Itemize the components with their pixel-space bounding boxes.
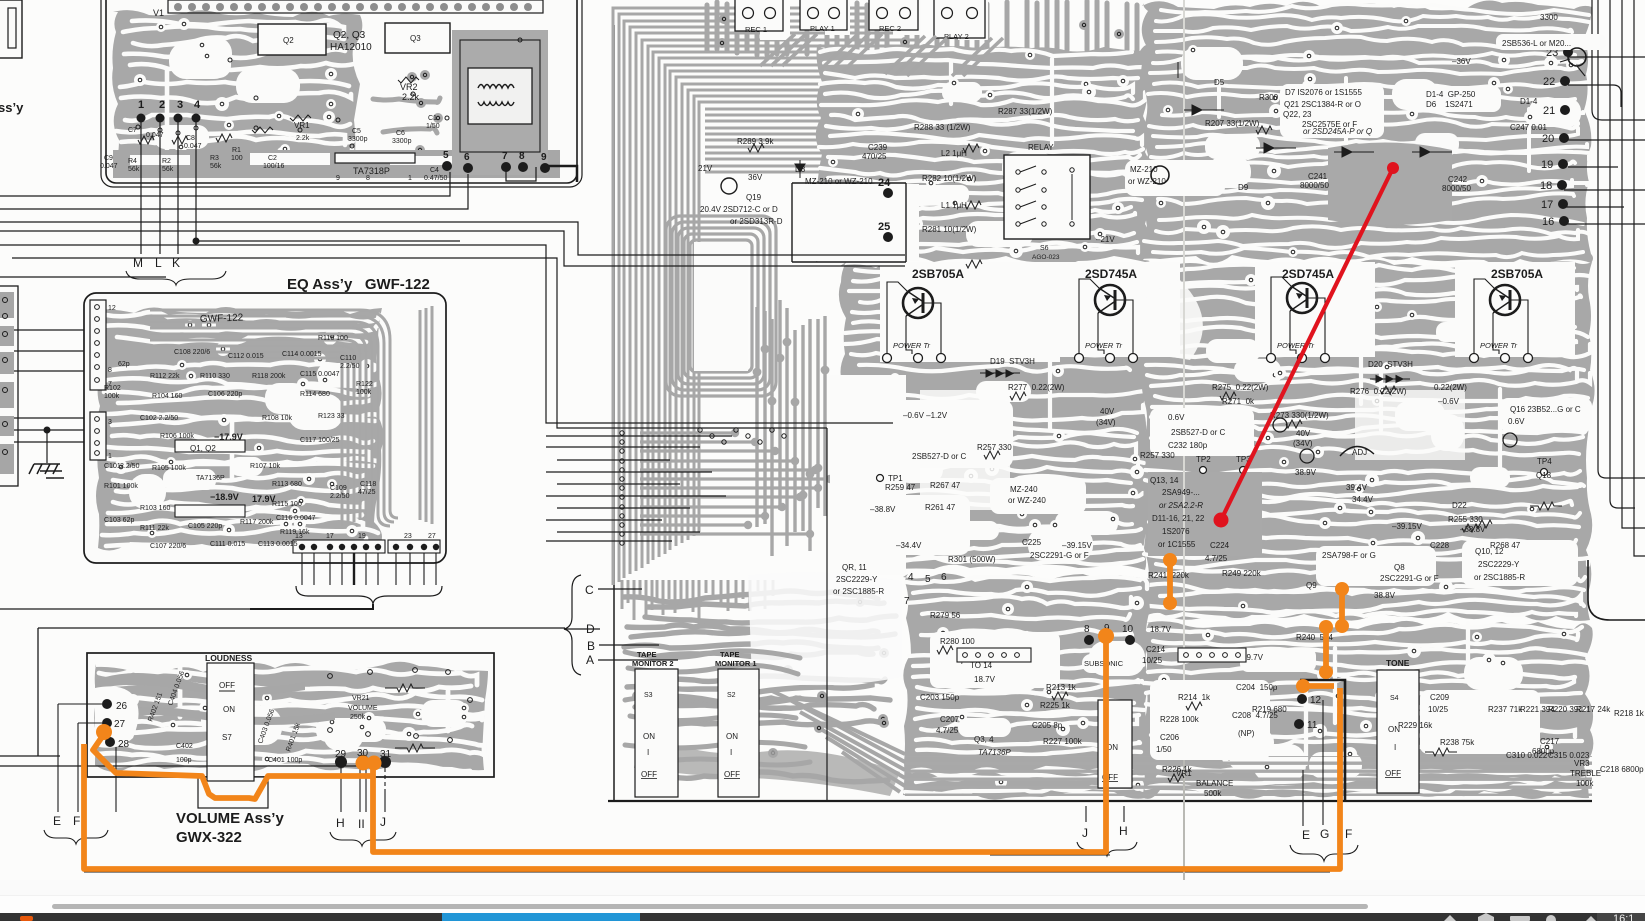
- main board bottom border: [608, 800, 1592, 802]
- svg-text:2SB527-D or C: 2SB527-D or C: [912, 452, 966, 461]
- svg-text:9: 9: [541, 152, 547, 163]
- svg-text:–36V: –36V: [1452, 57, 1471, 66]
- svg-text:29: 29: [335, 749, 347, 760]
- diode row STV3H left: [980, 370, 1020, 377]
- svg-text:4.7/25: 4.7/25: [936, 726, 959, 735]
- svg-text:C117 100/25: C117 100/25: [300, 437, 340, 444]
- svg-text:MONITOR 1: MONITOR 1: [715, 659, 757, 668]
- svg-text:POWER Tr: POWER Tr: [1085, 341, 1122, 350]
- svg-text:R213 1k: R213 1k: [1046, 683, 1077, 692]
- red service pointer line: [1214, 162, 1400, 528]
- svg-text:R4: R4: [128, 158, 137, 165]
- interconnect wires: [0, 166, 905, 800]
- svg-text:R279 56: R279 56: [930, 611, 961, 620]
- svg-text:or 1C1555: or 1C1555: [1158, 540, 1196, 549]
- svg-text:POWER Tr: POWER Tr: [893, 341, 930, 350]
- svg-text:12: 12: [1310, 695, 1322, 706]
- node D long wire: [38, 627, 565, 629]
- pins 26 27 28: [102, 699, 112, 709]
- svg-text:S2: S2: [727, 692, 736, 699]
- pad numbers: [904, 572, 1322, 731]
- svg-text:56k: 56k: [162, 166, 174, 173]
- svg-text:Q9: Q9: [1306, 581, 1317, 590]
- svg-text:D8: D8: [795, 165, 806, 174]
- svg-text:C7: C7: [128, 127, 137, 134]
- svg-text:VR21: VR21: [352, 695, 370, 702]
- svg-text:R106 100k: R106 100k: [160, 433, 194, 440]
- svg-text:Q1, Q2: Q1, Q2: [190, 444, 216, 453]
- svg-text:R101 100k: R101 100k: [104, 483, 138, 490]
- svg-text:C103 62p: C103 62p: [104, 517, 134, 524]
- svg-text:0.047: 0.047: [184, 143, 202, 150]
- svg-text:R113 680: R113 680: [272, 481, 302, 488]
- svg-text:–39.15V: –39.15V: [1392, 522, 1422, 531]
- svg-text:2SD745A: 2SD745A: [1085, 267, 1137, 281]
- svg-text:E: E: [1302, 828, 1310, 842]
- svg-text:R107 10k: R107 10k: [250, 463, 280, 470]
- wire from junction right: [196, 240, 460, 242]
- svg-text:25: 25: [878, 221, 890, 233]
- svg-text:TA7136P: TA7136P: [978, 748, 1011, 757]
- svg-text:D20 STV3H: D20 STV3H: [1368, 360, 1413, 369]
- svg-text:1S2076: 1S2076: [1162, 527, 1190, 536]
- taskbar active app: [442, 913, 640, 921]
- svg-text:TREBLE: TREBLE: [1570, 769, 1601, 778]
- svg-text:19: 19: [1541, 159, 1553, 171]
- svg-text:C113 0.0015: C113 0.0015: [258, 541, 298, 548]
- svg-text:21: 21: [1543, 105, 1555, 117]
- jack PLAY 1: [800, 0, 847, 33]
- svg-text:3300p: 3300p: [392, 138, 412, 145]
- svg-text:C207: C207: [940, 715, 960, 724]
- taskbar: [0, 913, 1645, 921]
- copper bottom band: [113, 150, 560, 178]
- svg-text:C110: C110: [340, 355, 356, 362]
- svg-text:R277 0.22(2W): R277 0.22(2W): [1008, 383, 1065, 392]
- svg-text:OFF: OFF: [1385, 769, 1401, 778]
- svg-text:26: 26: [116, 701, 128, 712]
- svg-text:1/50: 1/50: [426, 123, 440, 130]
- svg-text:C401 100p: C401 100p: [268, 757, 302, 764]
- horizontal scrollbar: [0, 896, 1645, 913]
- ADJ arc: [1340, 446, 1374, 456]
- copper mass top right: [1141, 1, 1593, 265]
- svg-text:S3: S3: [644, 692, 653, 699]
- EQ component labels: [104, 335, 376, 550]
- resistor zigzags scattered: [748, 126, 1562, 782]
- svg-text:C203 150p: C203 150p: [920, 693, 960, 702]
- svg-text:G: G: [1320, 827, 1329, 841]
- svg-text:H: H: [336, 816, 345, 830]
- copper mass top middle: [707, 0, 1137, 55]
- svg-text:0.22(2W): 0.22(2W): [1434, 383, 1467, 392]
- svg-text:or WZ-240: or WZ-240: [1008, 496, 1046, 505]
- svg-text:7: 7: [904, 596, 910, 607]
- svg-text:R273 330(1/2W): R273 330(1/2W): [1270, 411, 1329, 420]
- horizontal trace band bottom: [905, 756, 1592, 796]
- solid pour near C241: [1328, 142, 1452, 225]
- svg-text:R115 100: R115 100: [272, 501, 302, 508]
- svg-text:Q13, 14: Q13, 14: [1150, 476, 1179, 485]
- svg-text:8000/50: 8000/50: [1442, 184, 1471, 193]
- svg-text:6800p: 6800p: [1532, 747, 1555, 756]
- IC Q3: [385, 23, 450, 53]
- svg-text:2SC2229-Y: 2SC2229-Y: [836, 575, 878, 584]
- svg-text:R276 0.22(2W): R276 0.22(2W): [1350, 387, 1407, 396]
- svg-text:2SC2229-Y: 2SC2229-Y: [1478, 560, 1520, 569]
- svg-text:TP4: TP4: [1537, 457, 1552, 466]
- svg-text:C102 2.2/50: C102 2.2/50: [140, 415, 178, 422]
- svg-text:R111 22k: R111 22k: [140, 525, 169, 532]
- svg-text:34.4V: 34.4V: [1352, 495, 1374, 504]
- svg-text:3: 3: [177, 99, 183, 111]
- IC Q1,Q2 strips: [175, 440, 245, 452]
- wires into EQ board: [0, 277, 166, 442]
- svg-text:Q8: Q8: [1394, 563, 1405, 572]
- svg-text:BALANCE: BALANCE: [1196, 779, 1233, 788]
- svg-text:C217: C217: [1540, 737, 1560, 746]
- svg-text:VOLUME: VOLUME: [348, 705, 378, 712]
- content bottom edge: [0, 880, 1645, 921]
- svg-text:TAPE: TAPE: [720, 650, 739, 659]
- small component labels: [100, 115, 447, 182]
- svg-text:3300: 3300: [1540, 13, 1558, 22]
- relay S6: [1004, 143, 1090, 261]
- svg-text:R118 200k: R118 200k: [252, 373, 286, 380]
- svg-text:0.047: 0.047: [100, 163, 118, 170]
- svg-text:S7: S7: [222, 733, 232, 742]
- svg-text:D5: D5: [1214, 78, 1225, 87]
- svg-text:TP1: TP1: [888, 474, 903, 483]
- IC Q1 strip: [335, 153, 415, 163]
- svg-text:C1: C1: [428, 115, 437, 122]
- svg-text:2SA949-...: 2SA949-...: [1162, 488, 1200, 497]
- EQ right trace bundle (nested arcs): [150, 306, 432, 526]
- svg-text:or 2SC1885-R: or 2SC1885-R: [833, 587, 884, 596]
- svg-text:OFF: OFF: [724, 770, 740, 779]
- brace gathering EQ wires: [296, 586, 442, 604]
- svg-text:C118: C118: [360, 481, 376, 488]
- switch S2: [715, 650, 759, 797]
- svg-text:R114 680: R114 680: [300, 391, 330, 398]
- svg-text:R110 330: R110 330: [200, 373, 230, 380]
- svg-text:R275 0.22(2W): R275 0.22(2W): [1212, 383, 1269, 392]
- copper pour mid cluster: [373, 70, 443, 155]
- svg-text:C228: C228: [1430, 541, 1450, 550]
- transistor Q15: [1273, 418, 1287, 432]
- svg-text:19: 19: [358, 533, 366, 540]
- svg-text:Q3: Q3: [410, 34, 421, 43]
- junction dot wire K: [193, 238, 200, 245]
- svg-text:C112 0.015: C112 0.015: [228, 353, 264, 360]
- svg-text:10/25: 10/25: [1142, 656, 1163, 665]
- svg-text:8: 8: [108, 367, 112, 374]
- trace frames around island: [666, 216, 776, 396]
- svg-text:Q18: Q18: [1536, 471, 1552, 480]
- svg-text:D6 1S2471: D6 1S2471: [1426, 100, 1473, 109]
- svg-text:100: 100: [231, 155, 243, 162]
- svg-text:1: 1: [408, 175, 412, 182]
- svg-text:R268 47: R268 47: [1490, 541, 1521, 550]
- switch TONE S4: [1377, 658, 1419, 793]
- svg-text:I: I: [730, 748, 732, 757]
- svg-text:–21V: –21V: [1096, 235, 1115, 244]
- svg-text:R219 680: R219 680: [1252, 705, 1287, 714]
- scan crease: [1183, 0, 1185, 880]
- IC Q2: [258, 24, 326, 55]
- svg-text:56k: 56k: [128, 166, 140, 173]
- svg-text:6: 6: [941, 572, 947, 583]
- svg-text:18: 18: [1540, 180, 1552, 192]
- svg-text:2SD745A: 2SD745A: [1282, 267, 1334, 281]
- svg-text:28: 28: [118, 739, 130, 750]
- svg-text:27: 27: [114, 719, 126, 730]
- loudness tab below board: [198, 777, 268, 808]
- wires pins 1-4 down to M L K: [141, 122, 196, 254]
- svg-text:–38.8V: –38.8V: [870, 505, 896, 514]
- svg-text:RELAY: RELAY: [1028, 143, 1054, 152]
- svg-text:2.2/50: 2.2/50: [120, 463, 140, 470]
- svg-text:8: 8: [1084, 624, 1090, 635]
- svg-text:R287 33(1/2W): R287 33(1/2W): [998, 107, 1053, 116]
- svg-text:R207 33(1/2W): R207 33(1/2W): [1205, 119, 1260, 128]
- jack REC 2: [869, 0, 918, 33]
- svg-text:3300p: 3300p: [348, 136, 368, 143]
- svg-text:39.4V: 39.4V: [1346, 483, 1368, 492]
- svg-text:2.2/50: 2.2/50: [340, 363, 360, 370]
- brace under H II J: [330, 832, 396, 846]
- wires pins 29-31 down: [341, 767, 385, 812]
- copper mass mid right: [1140, 259, 1594, 620]
- svg-text:C6: C6: [396, 130, 405, 137]
- svg-text:or 2SC1885-R: or 2SC1885-R: [1474, 573, 1525, 582]
- svg-text:D22: D22: [1452, 501, 1467, 510]
- svg-text:17.9V: 17.9V: [252, 494, 276, 504]
- svg-text:40V: 40V: [1100, 407, 1115, 416]
- svg-text:R119 16k: R119 16k: [280, 529, 310, 536]
- svg-text:VR2: VR2: [400, 82, 418, 92]
- svg-text:PLAY 1: PLAY 1: [810, 24, 835, 33]
- switch S3: [632, 650, 678, 797]
- copper pour left cluster: [112, 10, 362, 178]
- svg-text:R289 3.9k: R289 3.9k: [737, 137, 774, 146]
- svg-text:R225 1k: R225 1k: [1040, 701, 1071, 710]
- svg-text:18.7V: 18.7V: [974, 675, 996, 684]
- svg-text:R116 100: R116 100: [318, 335, 348, 342]
- resistor ladder right: [328, 668, 473, 752]
- svg-text:Q2, Q3: Q2, Q3: [333, 30, 366, 41]
- svg-text:C4: C4: [430, 167, 439, 174]
- EQ copper interior: [96, 306, 383, 551]
- svg-text:8: 8: [519, 151, 525, 162]
- svg-text:17: 17: [326, 533, 334, 540]
- resistor squiggles: [138, 77, 419, 144]
- svg-text:E: E: [53, 814, 61, 828]
- diodes top right row: [1172, 62, 1463, 157]
- svg-text:6: 6: [464, 152, 470, 163]
- svg-text:5: 5: [925, 574, 931, 585]
- trace bundle: nested corner traces: [613, 8, 918, 585]
- svg-text:0.6V: 0.6V: [1168, 413, 1185, 422]
- svg-text:56k: 56k: [210, 163, 222, 170]
- svg-text:22: 22: [1543, 76, 1555, 88]
- svg-text:R267 47: R267 47: [930, 481, 961, 490]
- svg-text:C204 150p: C204 150p: [1236, 683, 1278, 692]
- svg-text:Q16 23B52...G or C: Q16 23B52...G or C: [1510, 405, 1581, 414]
- svg-text:GWF-122: GWF-122: [200, 312, 244, 325]
- svg-text:Q19: Q19: [746, 193, 762, 202]
- svg-text:2SC2291-G or F: 2SC2291-G or F: [1380, 574, 1439, 583]
- svg-text:2: 2: [159, 99, 165, 111]
- svg-text:(34V): (34V): [1096, 418, 1116, 427]
- component labels on main board: [698, 13, 1571, 244]
- white pocket around pins 26-28: [95, 686, 139, 747]
- svg-text:TP2: TP2: [1196, 455, 1211, 464]
- svg-text:470/25: 470/25: [862, 152, 887, 161]
- svg-text:8000/50: 8000/50: [1300, 181, 1329, 190]
- svg-text:20.4V 2SD712-C or D: 20.4V 2SD712-C or D: [700, 205, 778, 214]
- svg-text:R218 1k: R218 1k: [1614, 709, 1645, 718]
- copper mass mid left channel: [839, 262, 1151, 572]
- svg-text:C5: C5: [352, 128, 361, 135]
- svg-text:TONE: TONE: [1386, 658, 1410, 668]
- svg-text:R280 100: R280 100: [940, 637, 975, 646]
- wires from pins down to E F: [58, 704, 116, 812]
- svg-text:D1-4 GP-250: D1-4 GP-250: [1426, 90, 1476, 99]
- svg-text:C101: C101: [104, 463, 121, 470]
- IC connector strip C214: [1178, 648, 1246, 662]
- node letters J H: [1077, 806, 1137, 856]
- svg-text:7: 7: [502, 151, 508, 162]
- svg-text:LOUDNESS: LOUDNESS: [205, 653, 253, 663]
- svg-text:ss’y: ss’y: [0, 100, 24, 115]
- svg-text:R123 33: R123 33: [318, 413, 345, 420]
- svg-text:R2: R2: [162, 158, 171, 165]
- svg-text:R112 22k: R112 22k: [150, 373, 180, 380]
- svg-text:L2 1μH: L2 1μH: [941, 149, 967, 158]
- svg-text:2SB527-D or C: 2SB527-D or C: [1171, 428, 1225, 437]
- svg-text:−17.9V: −17.9V: [214, 432, 243, 442]
- svg-text:R105 100k: R105 100k: [152, 465, 186, 472]
- svg-text:J: J: [1082, 826, 1088, 840]
- transformer T1 box: [468, 68, 532, 124]
- svg-text:H: H: [1119, 824, 1128, 838]
- svg-text:R282 10(1/2W): R282 10(1/2W): [922, 174, 977, 183]
- brace under M L K: [126, 271, 226, 285]
- volume board outline: [87, 653, 494, 777]
- svg-text:A: A: [586, 653, 594, 667]
- jack REC 1: [735, 0, 783, 34]
- svg-text:MZ-240: MZ-240: [1010, 485, 1038, 494]
- svg-text:TA7136P: TA7136P: [196, 475, 225, 482]
- svg-text:R117 200k: R117 200k: [240, 519, 274, 526]
- svg-text:0.6V: 0.6V: [1508, 417, 1525, 426]
- svg-text:S6: S6: [1040, 245, 1049, 252]
- svg-text:R259 47: R259 47: [885, 483, 916, 492]
- svg-text:1: 1: [108, 453, 112, 460]
- svg-text:C214: C214: [1146, 645, 1166, 654]
- svg-text:V1: V1: [153, 8, 164, 18]
- svg-text:or 2SA2.2-R: or 2SA2.2-R: [1159, 501, 1203, 510]
- svg-text:Q22, 23: Q22, 23: [1283, 110, 1312, 119]
- power transistor 2SB705A: [698, 13, 1645, 798]
- svg-text:R261 47: R261 47: [925, 503, 956, 512]
- svg-text:500k: 500k: [1204, 789, 1222, 798]
- solid pour IS2076 block: [1148, 472, 1262, 556]
- transistor Q17: [1300, 449, 1314, 463]
- svg-text:2SC2291-G or F: 2SC2291-G or F: [1030, 551, 1089, 560]
- svg-text:2.2/50: 2.2/50: [330, 493, 350, 500]
- svg-text:B: B: [587, 639, 595, 653]
- EQ board outline: [84, 293, 446, 563]
- svg-text:OFF: OFF: [219, 681, 235, 690]
- head-amp board outline: [106, 0, 577, 183]
- svg-text:D9: D9: [1238, 183, 1249, 192]
- svg-text:VR1: VR1: [1176, 769, 1192, 778]
- terminal pins 23-16: [1540, 47, 1573, 228]
- diode row STV3H right: [1370, 376, 1410, 383]
- pins 29 30 31: [335, 756, 347, 768]
- svg-text:Q2: Q2: [283, 36, 294, 45]
- EQ output wires down to brace: [302, 553, 436, 585]
- svg-text:ON: ON: [726, 732, 738, 741]
- svg-text:R217 24k: R217 24k: [1576, 705, 1611, 714]
- copper mass bottom right: [1142, 621, 1593, 799]
- svg-text:C247 0.01: C247 0.01: [1510, 123, 1547, 132]
- svg-text:C241: C241: [1308, 172, 1328, 181]
- label backers: [860, 34, 1606, 760]
- svg-text:C218 6800p: C218 6800p: [1600, 765, 1644, 774]
- bundle left pads: [620, 428, 786, 545]
- svg-text:R229 16k: R229 16k: [1398, 721, 1433, 730]
- svg-text:C239: C239: [868, 143, 888, 152]
- black corner wire under orange: [1300, 680, 1345, 801]
- svg-text:HA12010: HA12010: [330, 42, 372, 53]
- svg-text:–0.6V –1.2V: –0.6V –1.2V: [903, 411, 948, 420]
- orange jumper TP segment: [1170, 560, 1342, 672]
- svg-text:1/50: 1/50: [1156, 745, 1172, 754]
- wires E G F: [1303, 266, 1452, 806]
- svg-text:F: F: [1345, 827, 1352, 841]
- svg-text:TA7318P: TA7318P: [353, 166, 390, 176]
- svg-text:R104 160: R104 160: [152, 393, 182, 400]
- svg-text:2SB705A: 2SB705A: [912, 267, 964, 281]
- svg-text:D7 IS2076 or 1S1555: D7 IS2076 or 1S1555: [1285, 88, 1362, 97]
- svg-text:1: 1: [138, 99, 144, 111]
- sub-board box pins 24 25: [792, 183, 906, 262]
- svg-text:10/25: 10/25: [1428, 705, 1449, 714]
- svg-text:VR3: VR3: [1574, 759, 1590, 768]
- svg-text:100p: 100p: [176, 757, 192, 764]
- svg-text:J: J: [380, 815, 386, 829]
- svg-text:R214 1k: R214 1k: [1178, 693, 1211, 702]
- svg-text:R281 10(1/2W): R281 10(1/2W): [922, 225, 977, 234]
- bundle lower horizontal traces: [640, 433, 830, 534]
- copper around transformer: [452, 30, 548, 175]
- orange highlight route from volume pin 27: [84, 639, 1340, 869]
- svg-text:R228 100k: R228 100k: [1160, 715, 1200, 724]
- svg-text:or 2SD313R-D: or 2SD313R-D: [730, 217, 783, 226]
- svg-text:S4: S4: [1390, 695, 1399, 702]
- svg-text:C205 8p: C205 8p: [1032, 721, 1063, 730]
- copper blobs volume: [95, 673, 305, 695]
- svg-text:QR, 11: QR, 11: [842, 563, 867, 572]
- loudness switch box: [207, 663, 254, 781]
- transistor Q19: [721, 178, 737, 194]
- svg-text:16:1: 16:1: [1613, 913, 1634, 921]
- svg-text:ADJ: ADJ: [1352, 448, 1367, 457]
- svg-text:11: 11: [1307, 720, 1318, 731]
